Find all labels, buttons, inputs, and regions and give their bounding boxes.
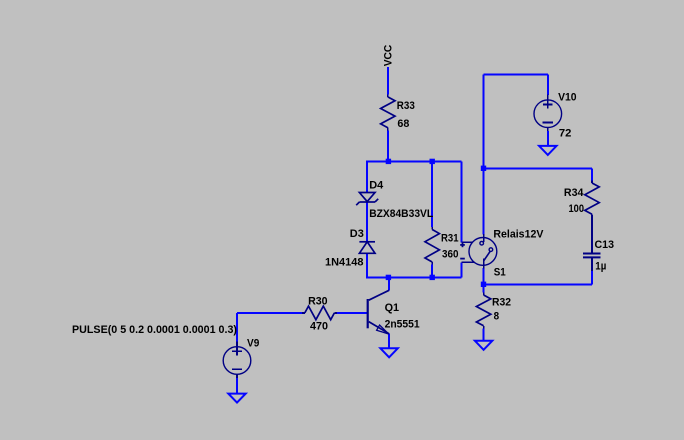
diode D4 zener — [359, 193, 375, 202]
node top rail R31 — [430, 159, 435, 164]
wire bottom rail — [366, 276, 461, 278]
wire V9 to ground — [236, 377, 238, 393]
wire D3 anode to bottom rail — [366, 253, 368, 277]
svg-text:Q1: Q1 — [385, 302, 400, 314]
ground V10 — [539, 146, 556, 155]
wire bottom right rail — [484, 283, 592, 285]
svg-text:8: 8 — [494, 311, 500, 323]
voltage source V9 — [223, 347, 251, 375]
svg-text:D3: D3 — [350, 228, 364, 240]
resistor R33 — [387, 94, 389, 97]
svg-text:R31: R31 — [441, 233, 459, 245]
svg-text:R30: R30 — [308, 296, 328, 308]
voltage source V10 — [534, 100, 562, 128]
svg-text:C13: C13 — [595, 239, 615, 251]
svg-text:100: 100 — [569, 203, 585, 215]
switch S1 — [469, 238, 497, 266]
wire top link to V10 — [484, 73, 548, 75]
svg-text:PULSE(0 5 0.2 0.0001 0.0001 0.: PULSE(0 5 0.2 0.0001 0.0001 0.3) — [72, 324, 237, 336]
svg-text:R34: R34 — [564, 187, 584, 199]
capacitor C13 — [583, 253, 601, 255]
wire right rail to R34 — [484, 167, 592, 169]
svg-text:360: 360 — [442, 249, 459, 261]
wire R30 to Q1 base — [337, 312, 367, 314]
node top rail R33 — [386, 159, 391, 164]
wire V10 lead top — [547, 74, 549, 95]
wire top rail to R31 — [431, 161, 433, 227]
wire S1 to R32 — [483, 268, 485, 292]
wire Q1 emitter to ground — [388, 334, 390, 349]
wire control plus drop — [460, 161, 462, 242]
wire control minus rise — [460, 262, 462, 277]
node bottom rail R31 — [430, 275, 435, 280]
svg-text:470: 470 — [310, 321, 328, 333]
diode D3 — [359, 241, 375, 243]
svg-text:V9: V9 — [247, 338, 259, 350]
wire R32 to ground — [483, 328, 485, 340]
wire VCC to R33 — [387, 67, 389, 94]
resistor R34 — [591, 180, 593, 183]
transistor Q1 — [367, 299, 369, 328]
ground V9 — [228, 394, 245, 403]
svg-text:VCC: VCC — [382, 45, 394, 67]
wire R31 to bottom rail — [431, 265, 433, 278]
node right rail S1 top — [481, 166, 486, 171]
node bottom rail Q1 — [386, 275, 391, 280]
svg-text:S1: S1 — [494, 267, 506, 279]
wire V10 to ground — [547, 131, 549, 146]
wire top rail — [366, 160, 461, 162]
node bottom S1 — [481, 282, 486, 287]
svg-text:D4: D4 — [369, 180, 384, 192]
svg-text:R32: R32 — [492, 297, 511, 309]
resistor R30 — [302, 312, 305, 314]
svg-text:1N4148: 1N4148 — [325, 257, 364, 269]
wire R34 top lead — [591, 168, 593, 180]
wire Q1 collector — [388, 277, 390, 290]
wire C13 to bottom rail — [591, 271, 593, 284]
svg-text:68: 68 — [397, 118, 409, 130]
svg-text:1µ: 1µ — [595, 261, 606, 273]
wire D4 cathode to D3 cathode — [366, 202, 368, 242]
svg-text:BZX84B33VL: BZX84B33VL — [369, 208, 433, 220]
wire top rail to D4 anode — [366, 161, 368, 192]
wire R33 to top rail — [387, 130, 389, 161]
svg-text:72: 72 — [559, 128, 572, 140]
wire S1 top column — [483, 74, 485, 234]
svg-text:2n5551: 2n5551 — [385, 319, 420, 331]
resistor R31 — [431, 227, 433, 230]
wire V9 to R30 — [237, 312, 302, 314]
ground R32 — [475, 341, 492, 350]
resistor R32 — [483, 292, 485, 295]
svg-text:R33: R33 — [397, 100, 415, 112]
svg-text:V10: V10 — [558, 92, 577, 104]
svg-text:Relais12V: Relais12V — [493, 229, 544, 241]
wire V9 riser — [236, 313, 238, 342]
ground Q1 emitter — [380, 348, 397, 357]
